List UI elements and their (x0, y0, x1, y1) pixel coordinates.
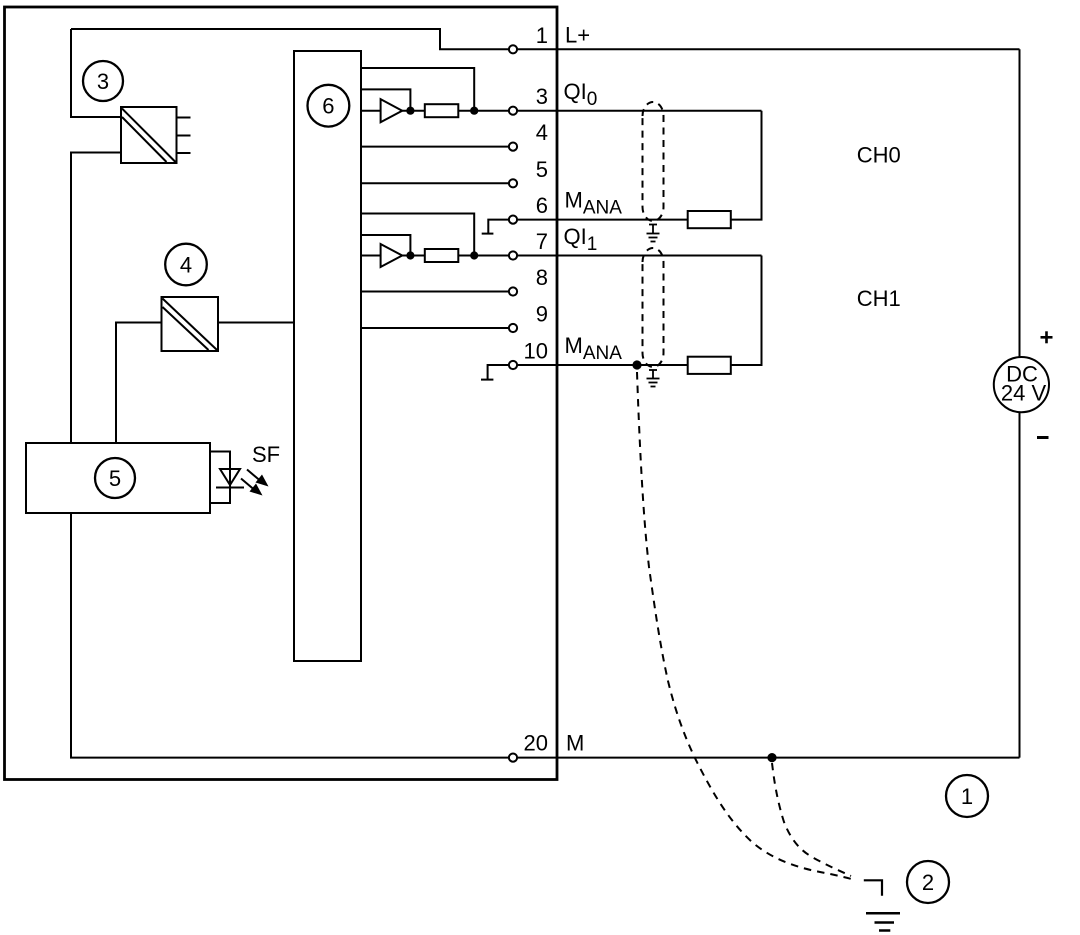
wire M bottom rail external (518, 757, 1020, 759)
terminal 4 (509, 143, 517, 151)
svg-text:10: 10 (524, 339, 548, 364)
svg-text:1: 1 (536, 23, 548, 48)
junction dot MANA node (632, 360, 641, 369)
svg-text:1: 1 (961, 784, 973, 809)
junction dot CH1 a (406, 251, 414, 259)
terminal 5 (509, 179, 517, 187)
wire from converter 3 down to block 5 (71, 153, 121, 444)
wire from block 4 to DAC block 6 (218, 322, 294, 324)
DC 24V source (994, 357, 1049, 412)
wire CH0 load right leg (731, 111, 762, 220)
svg-text:SF: SF (252, 442, 280, 467)
junction dot M rail (767, 753, 776, 762)
wire CH1 feedback loop (361, 214, 474, 256)
svg-text:CH1: CH1 (857, 286, 901, 311)
wire LED loop (210, 452, 230, 504)
wire M internal rail (71, 513, 508, 758)
svg-text:L+: L+ (565, 23, 590, 48)
shield ellipse CH0 (643, 102, 664, 221)
buffer amp CH0 (381, 99, 403, 122)
junction dot CH0 b (470, 107, 478, 115)
wire L+ internal top rail (71, 29, 508, 49)
svg-text:7: 7 (536, 229, 548, 254)
svg-text:4: 4 (180, 252, 192, 277)
svg-text:4: 4 (536, 120, 548, 145)
wire MANA terminal 10 to load (518, 364, 688, 366)
minus sign (1037, 436, 1049, 439)
junction dot CH1 b (470, 251, 478, 259)
svg-text:3: 3 (97, 69, 109, 94)
plus sign (1041, 331, 1053, 343)
terminal 3 (509, 107, 517, 115)
converter U4 box (162, 297, 219, 351)
ground stub terminal 6 (488, 220, 508, 234)
wire L+ from terminal 1 to right rail (518, 48, 1020, 50)
svg-text:24 V: 24 V (1001, 381, 1047, 406)
junction dot CH0 a (406, 107, 414, 115)
LED SF diode triangle (220, 469, 240, 485)
terminal 7 (509, 251, 517, 259)
wire CH0 buffer input (361, 110, 381, 112)
wire CH0 bypass (361, 89, 410, 110)
callout circle 4 (165, 244, 207, 286)
svg-text:3: 3 (536, 84, 548, 109)
wire terminal 5 (361, 182, 508, 184)
wire CH1 buffer input (361, 255, 381, 257)
terminal 6 (509, 216, 517, 224)
internal supply block U5 box (26, 443, 210, 513)
wire resistor CH1 to terminal 7 (458, 255, 508, 257)
converter U3 diagonal band (122, 109, 176, 163)
wire MANA terminal 6 to load (518, 219, 688, 221)
svg-text:6: 6 (536, 193, 548, 218)
svg-text:8: 8 (536, 265, 548, 290)
terminal 10 (509, 361, 517, 369)
svg-text:2: 2 (922, 870, 934, 895)
shield ground CH0 (647, 225, 660, 242)
terminal 9 (509, 324, 517, 332)
buffer amp CH1 (381, 244, 403, 267)
wire terminal 9 (361, 327, 508, 329)
wire buffer CH0 to resistor (402, 110, 425, 112)
load resistor CH0 (688, 211, 731, 228)
resistor CH1 internal (425, 249, 459, 262)
wire QI1 to load (518, 255, 762, 257)
converter U3 box (121, 107, 177, 163)
wire from block 4 down to block 5 (116, 323, 162, 444)
terminal 20 (509, 754, 517, 762)
converter U3 output pins (177, 117, 191, 119)
load resistor CH1 (688, 357, 731, 374)
dashed equipotential wire from MANA node to earth (637, 372, 855, 880)
resistor CH0 internal (425, 104, 459, 117)
svg-text:20: 20 (524, 731, 548, 756)
module boundary box (analog output module) (5, 7, 558, 780)
wire terminal 4 (361, 146, 508, 148)
wire right vertical supply rail (1019, 49, 1021, 757)
svg-text:6: 6 (322, 94, 334, 119)
wire terminal 8 (361, 291, 508, 293)
wire from top rail into converter 3 (71, 29, 121, 117)
svg-text:CH0: CH0 (857, 143, 901, 168)
LED SF cathode bar (216, 487, 244, 489)
svg-text:9: 9 (536, 302, 548, 327)
wire QI0 to load (518, 110, 762, 112)
wire CH0 feedback loop (361, 68, 474, 111)
LED SF emission arrow upper (247, 470, 269, 487)
wire resistor CH0 to terminal 3 (458, 110, 508, 112)
LED SF emission arrow lower (241, 479, 263, 496)
earth connection corner (864, 880, 882, 896)
callout circle 6 (308, 85, 350, 127)
shield ellipse CH1 (643, 248, 664, 367)
callout circle 3 (83, 61, 123, 101)
callout circle 5 (95, 458, 135, 498)
callout circle 2 (907, 861, 949, 903)
DAC block U6 box (294, 51, 361, 661)
wire CH1 load right leg (731, 256, 762, 366)
wire buffer CH1 to resistor (402, 255, 425, 257)
terminal 8 (509, 287, 517, 295)
shield ground CH1 (647, 370, 660, 387)
svg-text:M: M (566, 731, 584, 756)
svg-text:5: 5 (536, 157, 548, 182)
wire CH1 bypass (361, 235, 410, 256)
ground stub terminal 10 (488, 365, 509, 379)
callout circle 1 (946, 775, 988, 817)
earth ground symbol (866, 913, 900, 930)
terminal 1 (509, 45, 517, 53)
dashed equipotential wire from M node to earth (772, 763, 851, 876)
converter U4 diagonal band (163, 299, 218, 351)
svg-text:5: 5 (109, 466, 121, 491)
